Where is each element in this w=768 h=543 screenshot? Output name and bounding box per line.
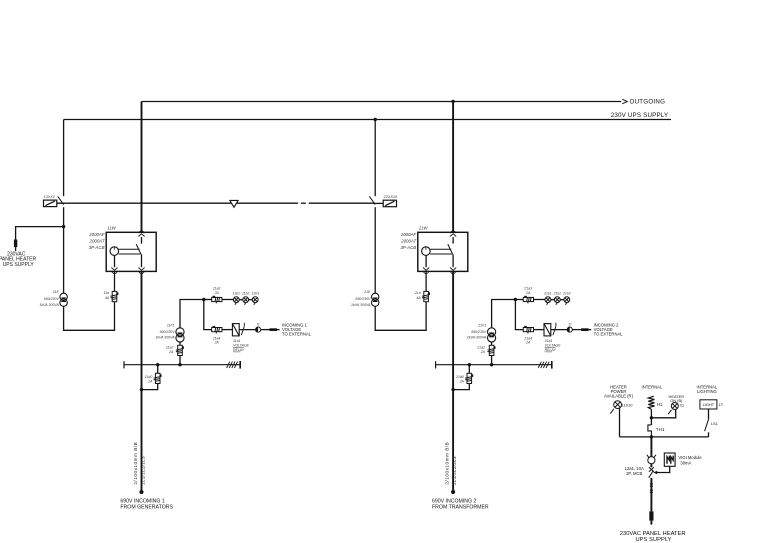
svg-text:21E: 21E <box>363 290 371 294</box>
wire fuse 21a2 to neutral bus <box>491 356 493 365</box>
switch blade 22XX10 <box>369 196 375 204</box>
wire fuse 11a4 to relay <box>222 329 233 331</box>
svg-text:11a3: 11a3 <box>213 286 221 290</box>
svg-text:2P, MCB: 2P, MCB <box>626 471 642 476</box>
voltage relay 21a1 box <box>544 324 551 336</box>
svg-text:2A: 2A <box>525 291 531 295</box>
node 11 aux junction <box>202 298 205 301</box>
lamp 21b3 <box>564 297 570 305</box>
transformer 11F1 <box>176 328 184 342</box>
wire 230V tie rail left segment <box>57 202 298 204</box>
node stub junction <box>62 225 65 228</box>
svg-text:2A: 2A <box>525 341 531 345</box>
svg-text:11a1: 11a1 <box>233 339 241 343</box>
wire ACB 11W lower stems <box>141 254 143 267</box>
earth hatch on bus <box>538 362 549 368</box>
svg-text:VOLTAGE: VOLTAGE <box>233 344 250 348</box>
wire junction to fuse 11a3 <box>204 299 212 301</box>
svg-text:21b2: 21b2 <box>553 292 562 296</box>
svg-text:11b2: 11b2 <box>242 292 249 296</box>
ACB 21W racking bar <box>430 248 451 250</box>
svg-text:AVAILABLE (R): AVAILABLE (R) <box>604 393 634 398</box>
svg-text:690/230V: 690/230V <box>355 297 371 301</box>
wire 21: dropper lower to transformer <box>374 207 376 293</box>
wire stub to fuse 22XX10 <box>375 202 383 204</box>
lamp h1 <box>668 403 678 415</box>
fuse 21a3 <box>523 297 533 303</box>
wire lamp h1 to node <box>651 409 675 417</box>
wire 21F1 secondary to fuse 21a2 <box>491 342 493 345</box>
wire heater line to RCD <box>650 437 652 457</box>
svg-text:21F1: 21F1 <box>477 323 486 327</box>
fuse link (filled) <box>649 511 653 520</box>
switch LS1 blade <box>705 419 709 431</box>
lamp 11b2 <box>243 297 249 305</box>
wire bus to fuse 21d0 <box>468 365 470 374</box>
wire bus to fuse 11d0 <box>157 365 159 374</box>
fuse 22XX10 body <box>383 200 396 207</box>
wire toroid to MCB <box>650 464 652 468</box>
lamp 21b2 <box>554 297 560 305</box>
ACB 21W operating mechanism circle <box>422 247 431 256</box>
svg-text:2000AT: 2000AT <box>400 238 416 243</box>
outgoing arrow <box>622 99 627 104</box>
wire relay to contact <box>551 329 567 331</box>
svg-text:f1: f1 <box>257 322 260 326</box>
ACB 21W drawout chevrons top <box>450 231 456 237</box>
lamp 11h10 <box>610 401 621 414</box>
wire 11: main 690V riser lower <box>141 271 143 492</box>
wire ACB 21W incoming stem <box>452 237 454 244</box>
svg-text:1kVA 300VA: 1kVA 300VA <box>467 336 487 340</box>
contact blade <box>241 326 244 335</box>
svg-text:4A: 4A <box>416 296 421 300</box>
svg-text:30mA: 30mA <box>680 461 691 466</box>
cable marker (thick dash) <box>581 328 589 331</box>
wire tie rail break dash <box>301 202 306 204</box>
wire outgoing rail <box>142 101 622 103</box>
svg-text:f2: f2 <box>569 322 572 326</box>
node heater supply junction <box>650 435 653 438</box>
wire fuse 21d to ACB <box>425 271 427 291</box>
wire H1 to node <box>650 409 652 417</box>
svg-text:21a4: 21a4 <box>523 336 532 340</box>
svg-text:2000AF: 2000AF <box>400 232 417 237</box>
svg-text:21b3: 21b3 <box>562 292 571 296</box>
node heater junction <box>650 416 653 419</box>
svg-text:11b1: 11b1 <box>233 292 240 296</box>
svg-text:RELAY: RELAY <box>545 348 557 352</box>
link mark b <box>650 490 653 493</box>
svg-text:690/230V: 690/230V <box>160 330 176 334</box>
node bus / 21d0 <box>468 363 471 366</box>
ACB 21W enclosure <box>418 232 468 271</box>
svg-text:h1: h1 <box>680 402 685 407</box>
svg-text:INTERNAL: INTERNAL <box>642 385 663 390</box>
wire lamp link 1 <box>551 299 555 301</box>
neutral bus bar <box>436 364 552 366</box>
wire 11F1 secondary to fuse 11a2 <box>179 342 181 345</box>
svg-text:13XX1: 13XX1 <box>44 195 55 199</box>
wire transformer 21E to fuse 21d <box>375 302 426 331</box>
svg-text:2A: 2A <box>168 350 174 354</box>
svg-text:22XX10: 22XX10 <box>383 195 398 199</box>
fuse 21d <box>422 291 428 301</box>
svg-text:1kVA 300VA: 1kVA 300VA <box>155 336 175 340</box>
svg-text:LIGHTING: LIGHTING <box>697 389 717 394</box>
wire transformer 11E to fuse 11d <box>64 302 115 331</box>
wire 11: UPS-rail dropper upper <box>63 120 65 197</box>
svg-text:11a4: 11a4 <box>213 336 221 340</box>
svg-text:TO EXTERNAL: TO EXTERNAL <box>594 332 624 337</box>
wire junction down to relay row <box>204 300 212 330</box>
MCB 12a1 blade <box>649 471 653 478</box>
svg-text:UPS SUPPLY: UPS SUPPLY <box>3 262 35 268</box>
wire fuse 11a2 to neutral bus <box>179 356 181 365</box>
svg-text:LT: LT <box>719 402 724 407</box>
wire below stub fuse <box>15 247 17 251</box>
svg-text:11b3: 11b3 <box>252 292 259 296</box>
wire ACB 11W incoming stem <box>141 237 143 244</box>
svg-text:690/230V: 690/230V <box>471 330 487 334</box>
label phases (vertical) <box>141 456 146 485</box>
ACB 11W operating mechanism circle <box>110 247 119 256</box>
wire transformer 11F1 primary riser <box>180 300 204 328</box>
svg-text:TO EXTERNAL: TO EXTERNAL <box>282 332 312 337</box>
fuse link (filled) on stub <box>14 240 17 248</box>
fuse 11a4 <box>212 328 222 334</box>
svg-text:2A: 2A <box>147 380 153 384</box>
svg-text:690/230V: 690/230V <box>44 297 60 301</box>
heater element H1 (zigzag) <box>648 396 654 409</box>
svg-text:LIGHT: LIGHT <box>703 402 715 407</box>
svg-text:230V UPS SUPPLY: 230V UPS SUPPLY <box>611 112 669 119</box>
svg-text:690V INCOMING 2: 690V INCOMING 2 <box>432 498 477 504</box>
terminal f1 <box>256 327 261 332</box>
wire fuse 11d0 to main riser <box>142 384 158 390</box>
svg-text:2A: 2A <box>459 380 465 384</box>
svg-text:11F1: 11F1 <box>167 323 175 327</box>
node main riser / 21d0 tap <box>451 388 454 391</box>
svg-text:H1: H1 <box>657 402 663 407</box>
svg-text:11W: 11W <box>107 226 116 231</box>
svg-text:11h10: 11h10 <box>622 402 634 407</box>
svg-text:VOLTAGE: VOLTAGE <box>545 344 562 348</box>
wire 230V UPS supply rail <box>64 119 671 121</box>
svg-text:21a1: 21a1 <box>544 339 553 343</box>
svg-text:11a2: 11a2 <box>166 346 174 350</box>
wire 21: main 690V riser upper <box>452 102 454 233</box>
svg-text:690V INCOMING 1: 690V INCOMING 1 <box>120 498 165 504</box>
svg-text:21d0: 21d0 <box>455 375 464 379</box>
lamp 11b3 <box>252 297 258 305</box>
wire 230V tie rail right segment <box>309 202 376 204</box>
wire lamp link 2 <box>560 299 564 301</box>
svg-text:2/100x10mm B/B: 2/100x10mm B/B <box>445 442 450 485</box>
label phases (vertical) <box>452 456 457 485</box>
wire fuse 21d0 to main riser <box>453 384 469 390</box>
svg-text:11d0: 11d0 <box>145 375 153 379</box>
svg-text:TH1: TH1 <box>656 427 665 432</box>
wire fuse 21a3 to lamps <box>534 299 546 301</box>
contact blade <box>553 326 556 335</box>
fuse 11a3 <box>212 297 222 303</box>
svg-text:21d: 21d <box>414 291 422 295</box>
svg-text:21a3: 21a3 <box>523 286 532 290</box>
thermostat TH1 <box>650 418 652 425</box>
label busbar spec (vertical) <box>445 442 450 485</box>
wire junction to fuse 21a3 <box>515 299 523 301</box>
svg-text:2A: 2A <box>213 341 219 345</box>
neutral bus bar <box>124 364 240 366</box>
wire terminal to external <box>261 329 270 331</box>
svg-text:21a2: 21a2 <box>476 346 485 350</box>
node outgoing/incomer2 junction <box>451 100 454 103</box>
svg-text:1kVA 300VA: 1kVA 300VA <box>351 303 371 307</box>
wire lamp link 1 <box>239 299 243 301</box>
arrowhead VIGI link <box>653 471 657 475</box>
link mark a <box>650 483 653 486</box>
wire 11: main 690V riser upper <box>141 102 143 233</box>
cable marker (thick dash) <box>270 328 278 331</box>
svg-text:1L1/1L2/1L3: 1L1/1L2/1L3 <box>141 456 146 485</box>
svg-text:21b1: 21b1 <box>543 292 552 296</box>
ACB 11W racking bar <box>119 248 140 250</box>
wire LIGHT box to switch LS1 <box>708 409 710 419</box>
wire below fuse link <box>650 521 652 525</box>
wire lamp 11h10 to heater line <box>619 408 621 437</box>
transformer 11E <box>60 293 67 306</box>
svg-text:FROM GENERATORS: FROM GENERATORS <box>120 505 173 511</box>
svg-text:4A: 4A <box>105 296 110 300</box>
wire junction down to relay row <box>515 300 523 330</box>
fuse 13XX1 body <box>44 200 57 207</box>
svg-text:LS1: LS1 <box>711 421 718 426</box>
svg-text:11E: 11E <box>53 290 60 294</box>
ACB 11W enclosure <box>106 232 156 271</box>
node main riser / 11d0 tap <box>140 388 143 391</box>
svg-text:FROM TRANSFORMER: FROM TRANSFORMER <box>432 505 489 511</box>
MCB 12a1 cross <box>649 467 654 471</box>
wire VIGI to main line <box>657 466 670 472</box>
node bus / 21a2 <box>490 363 493 366</box>
voltage relay 11a1 box <box>232 324 239 336</box>
svg-text:2A: 2A <box>480 350 486 354</box>
wire fuse 11a3 to lamps <box>222 299 234 301</box>
wire heater supply line <box>620 436 709 438</box>
terminal f2 <box>567 327 572 332</box>
incoming terminal dot <box>451 490 455 494</box>
fuse 11d <box>110 291 116 301</box>
label busbar spec (vertical) <box>133 442 138 485</box>
svg-text:UPS SUPPLY: UPS SUPPLY <box>636 537 672 543</box>
wire fuse 21a4 to relay <box>534 329 545 331</box>
transformer 21E <box>372 293 379 306</box>
wire transformer 21F1 primary riser <box>492 300 516 328</box>
svg-text:2000AF: 2000AF <box>88 232 105 237</box>
svg-text:2000AT: 2000AT <box>89 238 105 243</box>
RCD toroid <box>647 455 656 464</box>
switch blade 13XX1 <box>58 196 64 204</box>
wire 11: dropper lower to transformer <box>63 207 65 293</box>
earth hatch on bus <box>227 362 238 368</box>
wire 21: UPS-rail dropper upper <box>374 120 376 197</box>
svg-text:OUTGOING: OUTGOING <box>630 99 666 106</box>
ACB 21W drawout chevrons bottom <box>423 268 429 274</box>
node 21 aux junction <box>514 298 517 301</box>
wire relay to contact <box>239 329 255 331</box>
fuse 11d0 <box>154 373 160 383</box>
marker triangle on tie rail <box>230 200 238 207</box>
wire fuse 11d to ACB <box>114 271 116 291</box>
VIGI module box <box>664 453 675 466</box>
wire lamp link 2 <box>249 299 253 301</box>
svg-text:2/100x10mm B/B: 2/100x10mm B/B <box>133 442 138 485</box>
node ups-rail/unit2 junction <box>374 118 377 121</box>
VIGI module glyph <box>667 456 673 464</box>
lamp 11b1 <box>233 297 239 305</box>
wire 21: main 690V riser lower <box>452 271 454 492</box>
fuse 21a4 <box>523 328 533 334</box>
wire terminal to external <box>572 329 581 331</box>
svg-text:1kVA 300VA: 1kVA 300VA <box>39 303 59 307</box>
svg-text:2A: 2A <box>213 291 219 295</box>
svg-text:VIGI Module: VIGI Module <box>678 455 702 460</box>
lamp 21b1 <box>545 297 551 305</box>
ACB 11W blade <box>136 244 141 254</box>
wire ACB 21W lower stems <box>452 254 454 267</box>
wire MCB down <box>650 478 652 512</box>
svg-text:2L1/2L2/2L3: 2L1/2L2/2L3 <box>452 456 457 485</box>
LIGHT box <box>700 400 717 409</box>
svg-text:3P-ACB: 3P-ACB <box>400 245 416 250</box>
wire LS1 to heater line <box>708 432 710 437</box>
ACB 11W drawout chevrons bottom <box>111 268 117 274</box>
node bus / 11d0 <box>156 363 159 366</box>
svg-text:RELAY: RELAY <box>233 348 245 352</box>
svg-text:3P-ACB: 3P-ACB <box>89 245 105 250</box>
ACB 11W drawout chevrons top <box>138 231 144 237</box>
node bus / 11a2 <box>178 363 181 366</box>
fuse 11a2 <box>176 345 182 355</box>
incoming terminal dot <box>139 490 143 494</box>
wire stub to panel heater supply <box>16 227 64 240</box>
ACB 21W blade <box>448 244 453 254</box>
fuse 21a2 <box>488 345 494 355</box>
fuse 21d0 <box>465 373 471 383</box>
svg-text:21W: 21W <box>418 226 429 231</box>
transformer 21F1 <box>488 328 496 342</box>
